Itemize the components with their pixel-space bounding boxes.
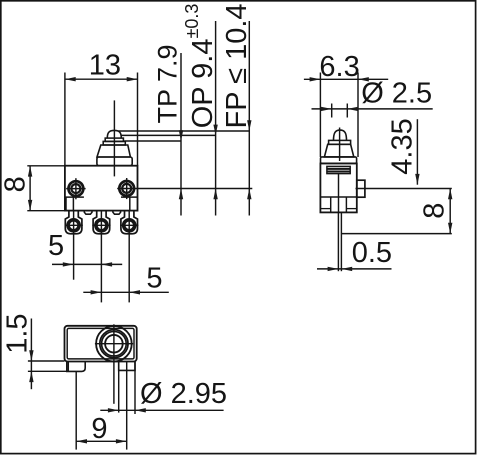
side base bushing (321, 157, 357, 164)
dimension 1.5 line (30, 319, 32, 390)
right mounting hole (119, 178, 134, 199)
dimension dia 2.5 line (312, 108, 433, 110)
dia 2.95 extension right (134, 362, 136, 415)
hole center leader line to FP/OP/TP dimensions (117, 188, 252, 190)
interior step under left hole (66, 197, 84, 211)
side terminal tab (357, 180, 365, 197)
pin edge / dia 2.95 extension left (118, 362, 120, 413)
dimension 6.3 extension lines (319, 73, 321, 158)
bottom boss 2 (113, 211, 121, 215)
interior step under right hole (121, 197, 137, 211)
svg-text:8: 8 (0, 176, 32, 192)
FP dimension line (248, 21, 250, 216)
svg-text:4.35: 4.35 (387, 118, 419, 174)
dimension 6.3 line (304, 78, 388, 80)
dimension dia 2.95 line (100, 409, 223, 411)
bushing circle outer (96, 326, 132, 362)
dimension 5 (first) line (52, 263, 122, 265)
svg-text:Ø 2.5: Ø 2.5 (361, 78, 432, 110)
side step band (329, 140, 351, 144)
side tapered collar (324, 144, 353, 157)
svg-text:13: 13 (89, 50, 121, 82)
svg-text:8: 8 (419, 203, 451, 219)
side internal centerline (338, 174, 340, 213)
tab leader line (356, 188, 452, 190)
hole dia 2.95 circle (105, 335, 123, 353)
terminal 3 (120, 211, 138, 303)
dimension 0.5 line (317, 268, 392, 270)
side spring detail band (327, 166, 350, 173)
svg-text:FP ≤ 10.4: FP ≤ 10.4 (221, 3, 253, 128)
TP dimension line (180, 53, 182, 216)
dimension 13 line (65, 78, 138, 80)
svg-text:5: 5 (146, 262, 162, 294)
plunger centerline (113, 100, 115, 176)
left mounting hole (66, 178, 85, 199)
plunger step band 2 (103, 141, 125, 145)
terminal 1 (65, 211, 83, 280)
svg-text:6.3: 6.3 (319, 51, 359, 83)
dimension 1.5 leaders (28, 360, 65, 362)
side solder pin (337, 212, 339, 271)
bushing circle 3 (102, 331, 127, 356)
side plunger centerline (339, 128, 341, 162)
dimension dia 2.5 extension lines (331, 104, 333, 118)
plunger tapered collar (97, 145, 130, 157)
plunger dome (107, 130, 121, 138)
dimension 9 line (76, 440, 127, 442)
bottom boss 1 (84, 211, 92, 215)
dimension 8 leaders (27, 165, 65, 167)
OP leader (121, 134, 215, 136)
svg-text:0.5: 0.5 (352, 237, 392, 269)
terminal 2 (92, 211, 110, 303)
left tab (67, 362, 85, 372)
switch body outline (65, 166, 138, 211)
svg-text:1.5: 1.5 (1, 313, 33, 353)
dimension 13 extension lines (64, 73, 66, 166)
crosshair horizontal (95, 343, 133, 345)
right tab (119, 362, 135, 371)
TP leader (124, 140, 181, 142)
FP leader (118, 130, 249, 132)
dimension 4.35 line (416, 119, 418, 185)
side plunger dome (334, 130, 347, 140)
plunger base bushing (97, 157, 132, 166)
plunger step band 1 (105, 138, 123, 141)
svg-text:5: 5 (48, 230, 64, 262)
bottom view body outline (65, 326, 137, 362)
pin end leader line (342, 233, 452, 235)
bottom view inner outline (67, 328, 134, 359)
dimension 5 (second) line (83, 291, 169, 293)
dimension 9 extension left (75, 371, 77, 449)
svg-text:TP 7.9: TP 7.9 (153, 44, 183, 123)
svg-text:9: 9 (91, 413, 107, 445)
OP dimension line (215, 21, 217, 216)
svg-text:Ø 2.95: Ø 2.95 (140, 378, 227, 410)
side bottom step (320, 197, 356, 212)
bushing circle 2 (100, 330, 128, 358)
side body outline (320, 163, 356, 212)
crosshair vertical / center extension (113, 324, 115, 404)
pin edge / 9 extension right (126, 362, 128, 450)
dimension 8 line (29, 166, 31, 211)
dimension 8 (right) line (449, 189, 451, 234)
